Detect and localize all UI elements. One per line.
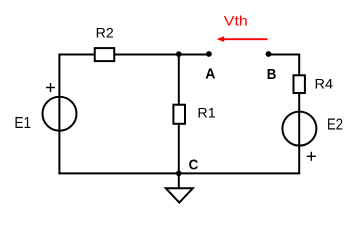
- resistor R2: [95, 48, 115, 61]
- svg-text:C: C: [189, 156, 199, 173]
- resistor R4: [294, 75, 305, 93]
- wire bottom: [58, 172, 300, 174]
- wire left vertical: [58, 54, 60, 175]
- svg-text:B: B: [267, 66, 277, 83]
- svg-text:R2: R2: [96, 24, 114, 40]
- polarity plus of E1: [46, 83, 55, 92]
- arrow Vth: [217, 36, 268, 42]
- svg-text:R4: R4: [315, 76, 334, 92]
- wire from R2 to node A: [113, 54, 209, 56]
- voltage source E2: [282, 112, 316, 146]
- node junction bottom: [176, 171, 182, 177]
- node B: [266, 51, 272, 57]
- node A: [206, 51, 212, 57]
- resistor R1: [173, 105, 185, 124]
- svg-text:A: A: [205, 66, 215, 83]
- wire top-left segment: [59, 54, 96, 56]
- node junction top: [176, 51, 182, 57]
- svg-text:E2: E2: [327, 117, 343, 134]
- svg-text:Vth: Vth: [224, 13, 248, 29]
- voltage source E1: [43, 97, 77, 131]
- svg-text:R1: R1: [197, 105, 216, 121]
- wire right vertical R4 to bottom: [298, 92, 300, 173]
- wire node B to top-right corner down to R4: [269, 55, 300, 77]
- ground: [166, 173, 193, 202]
- svg-text:E1: E1: [14, 115, 31, 132]
- wire middle vertical: [178, 55, 180, 174]
- polarity plus of E2: [307, 152, 316, 161]
